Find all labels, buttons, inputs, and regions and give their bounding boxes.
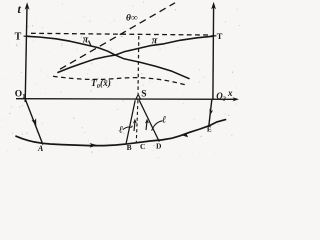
svg-text:ℓ: ℓ bbox=[119, 124, 123, 135]
svg-text:π: π bbox=[83, 34, 89, 45]
svg-text:C: C bbox=[140, 142, 145, 151]
svg-text:x: x bbox=[227, 88, 233, 98]
svg-text:B: B bbox=[127, 143, 132, 152]
svg-text:ℓ: ℓ bbox=[162, 114, 166, 125]
svg-text:π: π bbox=[152, 35, 158, 46]
svg-text:T: T bbox=[15, 32, 22, 43]
svg-text:A: A bbox=[37, 144, 44, 153]
svg-text:E: E bbox=[207, 126, 212, 134]
svg-text:T: T bbox=[217, 31, 223, 41]
svg-text:D: D bbox=[156, 142, 162, 151]
svg-text:θ∞: θ∞ bbox=[126, 14, 138, 24]
svg-text:S: S bbox=[141, 90, 146, 100]
